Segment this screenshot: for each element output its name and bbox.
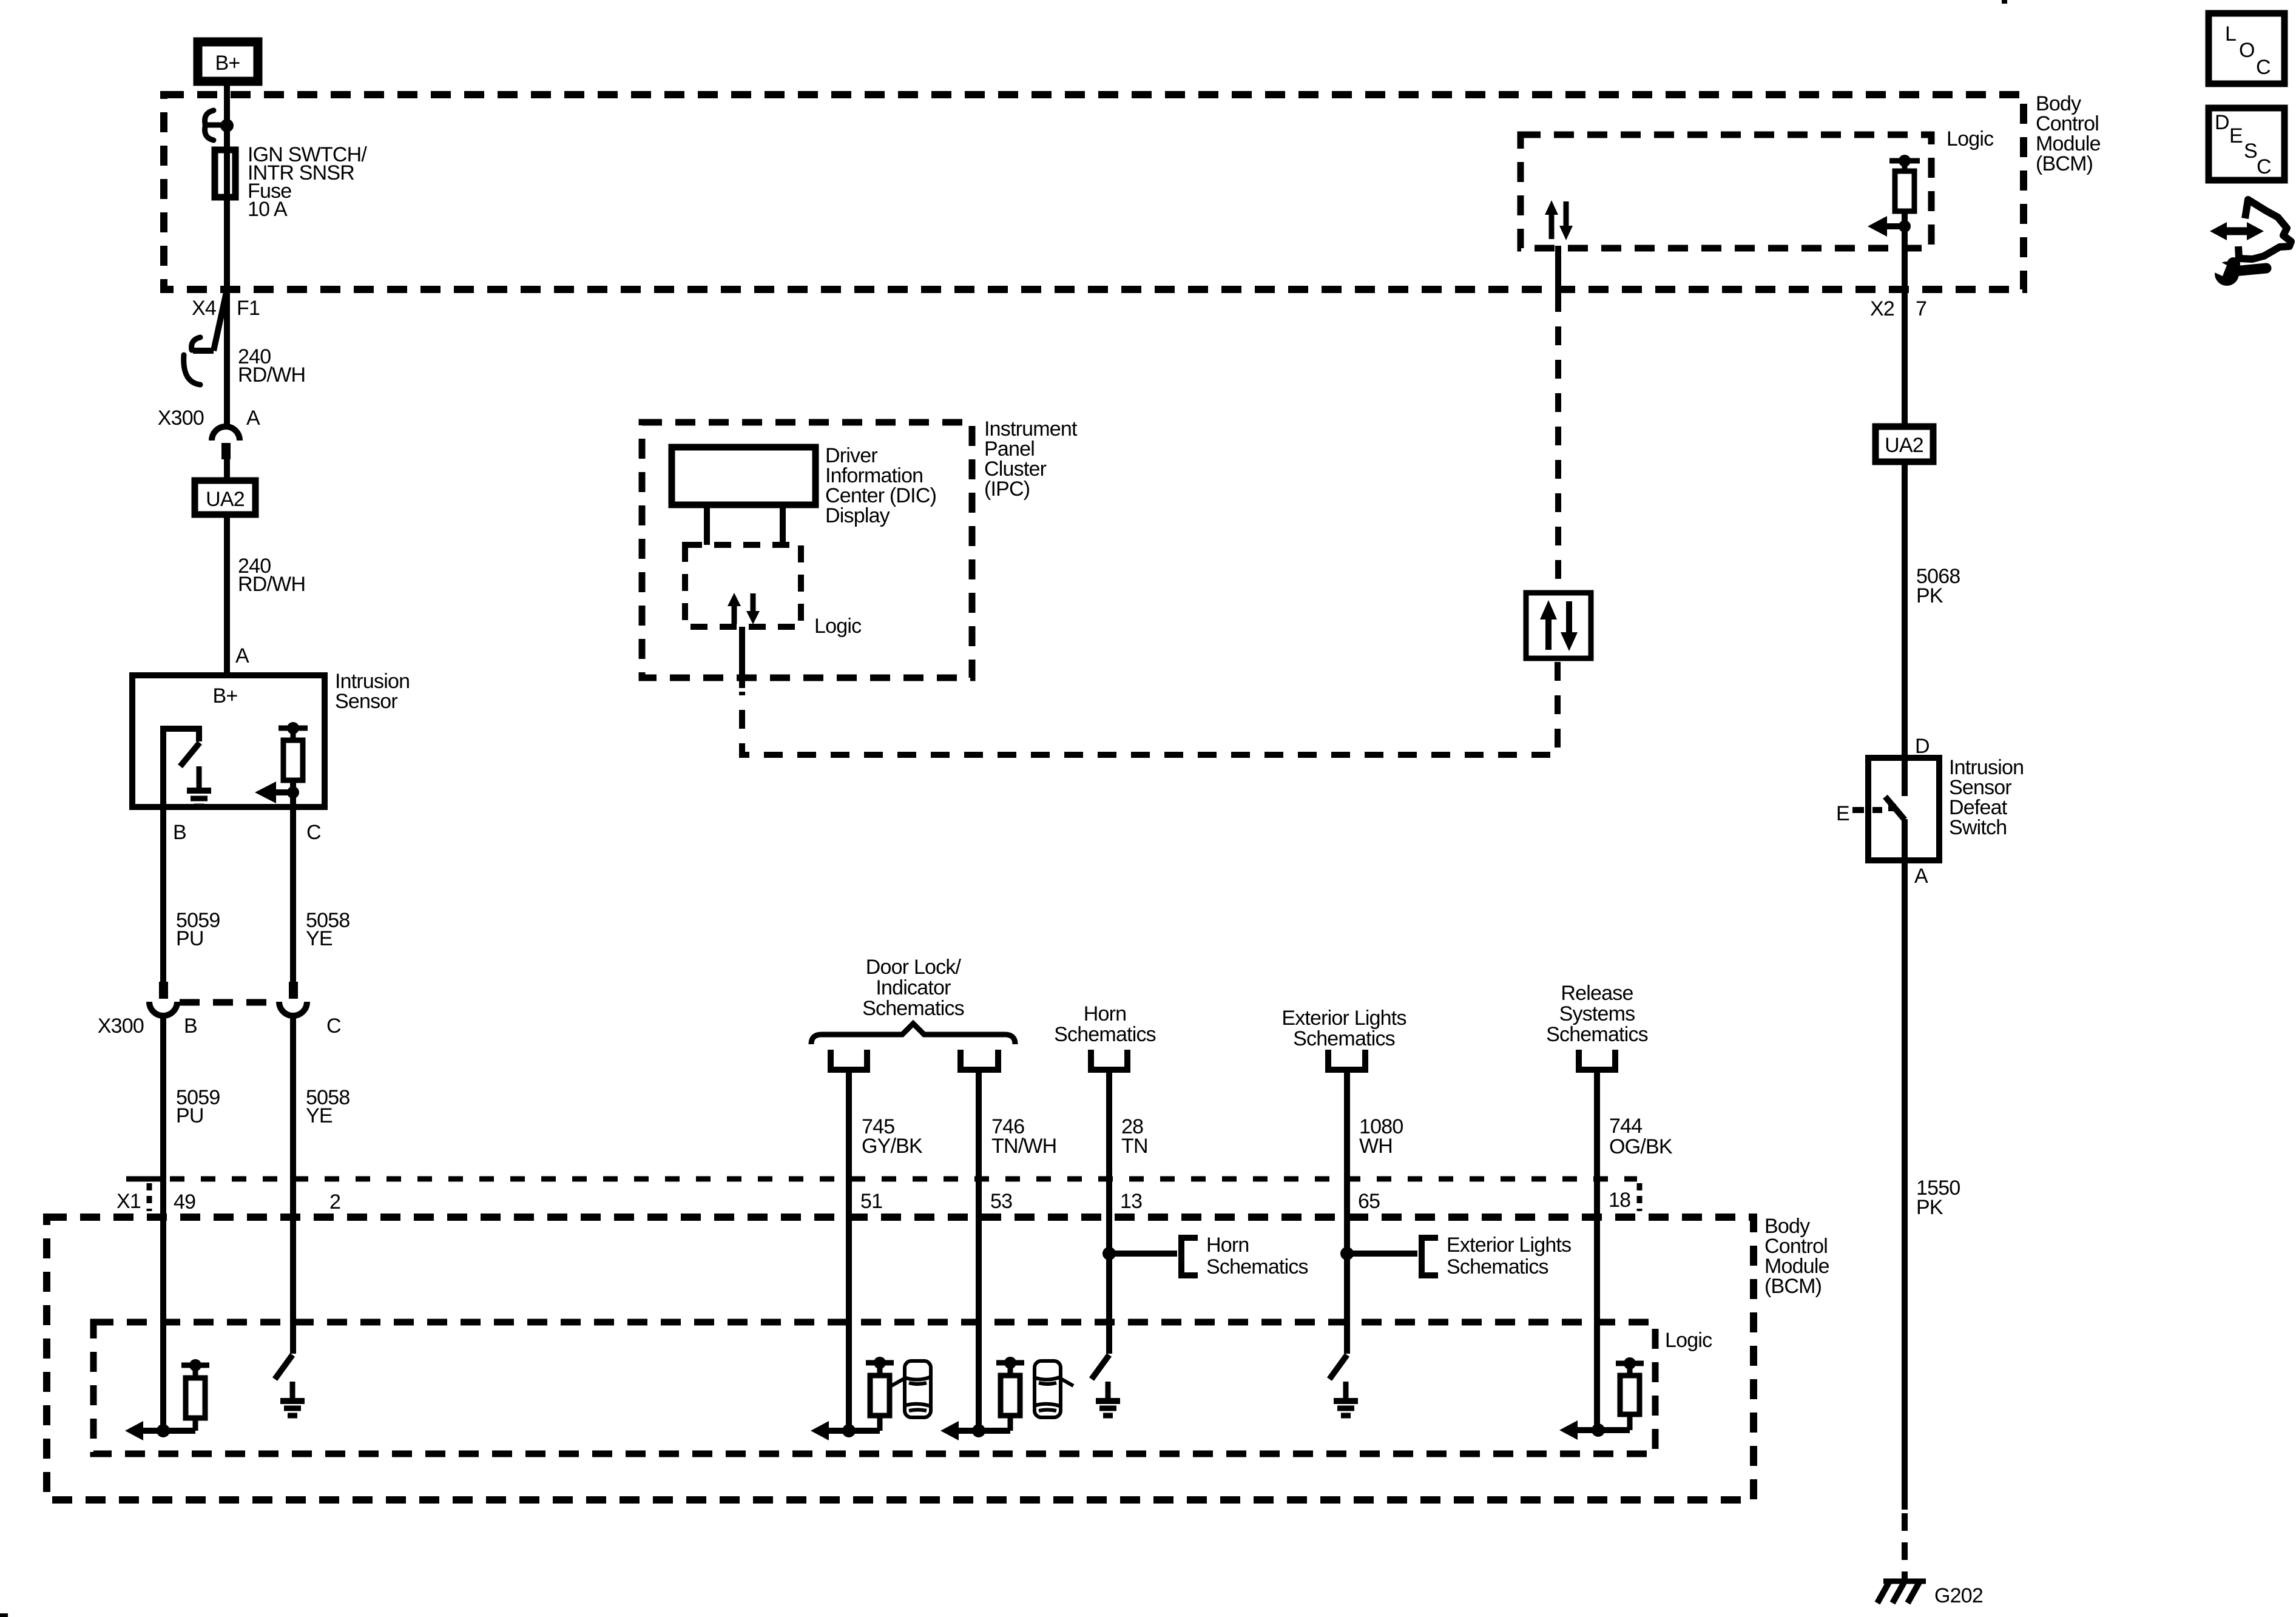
svg-text:YE: YE — [306, 927, 333, 950]
intrusion sensor signal arrow — [255, 781, 299, 803]
service/repair icon (arrow and wrench) — [2210, 200, 2291, 286]
off-page bracket Exterior Lights Schematics — [1422, 1234, 1571, 1278]
svg-text:B: B — [184, 1014, 197, 1038]
svg-text:65: 65 — [1358, 1190, 1380, 1213]
svg-text:GY/BK: GY/BK — [862, 1135, 923, 1158]
svg-text:A: A — [235, 644, 249, 667]
X1 pin numbers — [174, 1189, 1630, 1214]
pull-up resistor (BCM top right) — [1889, 155, 1920, 226]
connector X4 pin F1 (slanted pin symbol) — [184, 289, 260, 385]
Intrusion Sensor box — [132, 670, 410, 807]
wire 744 OG/BK — [1597, 1070, 1673, 1430]
svg-text:UA2: UA2 — [1885, 434, 1923, 457]
BCM resistor (pin 51) — [849, 1357, 894, 1431]
svg-text:Schematics: Schematics — [1293, 1027, 1395, 1050]
svg-text:Logic: Logic — [814, 615, 862, 638]
off-page connector (door lock 746) — [961, 1050, 998, 1070]
connector X2 pin 7 labels — [1870, 297, 1926, 320]
node: horn feed junction — [1102, 1247, 1116, 1260]
wire 5058 YE (upper) — [293, 807, 349, 982]
svg-text:Systems: Systems — [1559, 1002, 1635, 1025]
svg-text:PU: PU — [176, 1104, 204, 1127]
X300 connector dashed bridge — [180, 999, 277, 1006]
vehicle icon (pin 51) — [891, 1361, 931, 1417]
svg-text:E: E — [2229, 124, 2243, 147]
X300 row labels — [98, 1014, 341, 1038]
svg-text:D: D — [2215, 111, 2229, 134]
BCM input arrow (pin 49) — [125, 1421, 170, 1440]
svg-text:(IPC): (IPC) — [984, 478, 1030, 501]
splice/option UA2 (right) — [1876, 427, 1933, 462]
svg-text:51: 51 — [860, 1190, 882, 1213]
svg-text:Release: Release — [1561, 982, 1633, 1005]
wire 28 TN — [1109, 1070, 1148, 1354]
svg-text:F1: F1 — [237, 297, 260, 320]
BCM resistor (pin 53) — [979, 1357, 1024, 1431]
svg-text:Exterior Lights: Exterior Lights — [1281, 1007, 1406, 1030]
svg-text:WH: WH — [1359, 1135, 1393, 1158]
svg-text:Logic: Logic — [1665, 1329, 1712, 1352]
svg-text:PU: PU — [176, 927, 204, 950]
BCM pull-up resistor (pin 49) — [163, 1359, 209, 1431]
page edge speck (top) — [2002, 0, 2007, 4]
svg-text:E: E — [1836, 802, 1849, 825]
label Body Control Module (BCM) bottom — [1764, 1215, 1829, 1298]
svg-text:2: 2 — [329, 1190, 340, 1214]
svg-text:13: 13 — [1120, 1190, 1142, 1213]
pin labels B / C — [173, 821, 321, 844]
svg-text:(BCM): (BCM) — [1764, 1275, 1822, 1298]
BCM switch to ground (pin 2) — [275, 1355, 305, 1416]
power feed B+ — [198, 42, 258, 81]
wire 5059 PU (lower) — [163, 1016, 220, 1431]
BCM logic dashed box (top) — [1521, 135, 1931, 248]
wire 745 GY/BK — [849, 1070, 923, 1431]
BCM pull-up resistor (pin 18) — [1598, 1357, 1644, 1430]
svg-text:C: C — [2257, 155, 2271, 178]
svg-text:Schematics: Schematics — [1054, 1023, 1156, 1046]
BCM switch to ground (pin 65 exterior lights) — [1329, 1355, 1358, 1416]
svg-text:OG/BK: OG/BK — [1609, 1135, 1673, 1158]
wire to horn schematics bracket — [1109, 1251, 1177, 1257]
svg-text:C: C — [306, 821, 321, 844]
svg-text:B+: B+ — [213, 684, 238, 707]
svg-text:B: B — [173, 821, 186, 844]
wire 746 TN/WH — [979, 1070, 1056, 1431]
wire to exterior lights bracket — [1347, 1251, 1417, 1257]
dashed serial data line (comm box to IPC) — [742, 662, 1558, 755]
label Exterior Lights Schematics (top) — [1281, 1007, 1406, 1050]
svg-text:7: 7 — [1916, 297, 1926, 320]
wire BCM to X2 pin 7 — [1902, 226, 1908, 427]
svg-text:B+: B+ — [215, 52, 240, 75]
svg-text:RD/WH: RD/WH — [238, 573, 305, 596]
off-page bracket Horn Schematics — [1181, 1234, 1308, 1278]
svg-text:YE: YE — [306, 1104, 333, 1127]
wire 1550 PK — [1905, 860, 1960, 1510]
intrusion sensor internal resistor — [279, 722, 308, 807]
svg-text:A: A — [246, 407, 260, 430]
BCM input arrow (pin 18) — [1559, 1420, 1605, 1440]
svg-text:(BCM): (BCM) — [2036, 152, 2093, 175]
svg-text:Indicator: Indicator — [876, 976, 951, 999]
svg-text:O: O — [2239, 39, 2255, 62]
svg-text:C: C — [2256, 56, 2271, 79]
svg-text:18: 18 — [1609, 1189, 1630, 1212]
intrusion sensor internal switch — [163, 729, 200, 807]
splice/option UA2 (left) — [195, 481, 255, 515]
svg-text:53: 53 — [990, 1190, 1012, 1213]
DESC reference icon — [2209, 108, 2284, 180]
svg-text:G202: G202 — [1934, 1584, 1983, 1607]
serial data arrows (top logic) — [1545, 200, 1573, 240]
off-page connector (release systems) — [1579, 1050, 1615, 1070]
off-page connector (door lock 745) — [831, 1050, 867, 1070]
fuse F1: IGN SWTCH / INTR SNSR Fuse 10 A — [215, 143, 367, 221]
svg-text:Exterior Lights: Exterior Lights — [1447, 1234, 1571, 1257]
svg-text:10 A: 10 A — [248, 198, 288, 221]
svg-text:Horn: Horn — [1084, 1002, 1127, 1025]
dashed serial data line (BCM to comm box) — [1555, 293, 1561, 589]
svg-text:Schematics: Schematics — [1206, 1255, 1308, 1278]
Body Control Module (BCM) top dashed box — [164, 95, 2024, 289]
node: exterior lights feed junction — [1340, 1247, 1354, 1260]
wire 5059 PU (upper) — [163, 807, 220, 982]
svg-text:X1: X1 — [116, 1190, 141, 1213]
svg-text:Schematics: Schematics — [1546, 1023, 1648, 1046]
svg-text:Schematics: Schematics — [1447, 1255, 1548, 1278]
page edge speck (bottom left) — [0, 1613, 8, 1617]
intrusion sensor internal ground — [187, 766, 211, 806]
vehicle icon (pin 53) — [1035, 1361, 1073, 1417]
defeat switch pin E with dashes — [1836, 802, 1882, 825]
wire 5068 PK — [1905, 462, 1960, 758]
connector X300 pin C — [279, 982, 307, 1016]
BCM output arrow (pin 51) — [811, 1421, 856, 1440]
label Release Systems Schematics — [1546, 982, 1648, 1046]
dashed wire to ground G202 — [1902, 1513, 1908, 1580]
Instrument Panel Cluster (IPC) dashed box — [642, 417, 1078, 678]
svg-text:Sensor: Sensor — [335, 690, 397, 713]
svg-text:Switch: Switch — [1949, 816, 2007, 839]
label Horn Schematics (top) — [1054, 1002, 1156, 1046]
wire 240 RD/WH (upper) — [227, 289, 305, 427]
Body Control Module (BCM) bottom dashed box — [47, 1217, 1754, 1500]
BCM logic dashed box (bottom) — [93, 1322, 1655, 1454]
connector X1 fine dotted line — [126, 1179, 1639, 1211]
svg-text:X300: X300 — [158, 407, 204, 430]
label Body Control Module (BCM) top — [2036, 92, 2101, 175]
Driver Information Center (DIC) Display — [672, 444, 936, 545]
solid comm stub below IPC logic — [739, 627, 745, 688]
svg-text:L: L — [2225, 22, 2236, 46]
svg-text:Door Lock/: Door Lock/ — [866, 956, 962, 979]
off-page connector (exterior lights) — [1328, 1050, 1365, 1070]
svg-text:Logic: Logic — [1947, 127, 1994, 150]
svg-text:S: S — [2244, 140, 2257, 163]
chassis ground G202 — [1877, 1581, 1983, 1607]
connector X300 pin A — [158, 407, 260, 481]
svg-text:RD/WH: RD/WH — [238, 363, 305, 387]
svg-text:PK: PK — [1916, 584, 1943, 607]
BCM output arrow (to defeat switch) — [1868, 216, 1911, 237]
label Door Lock / Indicator Schematics — [862, 956, 964, 1020]
defeat switch blade — [1885, 758, 1905, 860]
svg-text:X2: X2 — [1870, 297, 1894, 320]
IPC logic dashed box — [685, 545, 862, 638]
LOC reference icon — [2209, 13, 2284, 84]
svg-text:C: C — [326, 1014, 341, 1038]
svg-text:PK: PK — [1916, 1196, 1943, 1219]
connector X300 pin B — [149, 982, 177, 1016]
wire B+ to fuse F1 — [224, 81, 230, 289]
svg-text:744: 744 — [1609, 1115, 1642, 1138]
wire 1080 WH — [1347, 1070, 1403, 1354]
Intrusion Sensor Defeat Switch box — [1868, 756, 2024, 860]
svg-text:TN: TN — [1121, 1135, 1148, 1158]
comm translator box with arrows — [1526, 593, 1591, 658]
comm line solid stub below top logic — [1555, 246, 1561, 289]
serial data arrows (IPC logic) — [728, 593, 760, 624]
fuse terminal clip (top) — [205, 110, 226, 140]
svg-text:A: A — [1914, 865, 1928, 888]
brace over door lock wires — [811, 1024, 1015, 1044]
svg-text:Display: Display — [825, 504, 890, 527]
svg-text:49: 49 — [174, 1190, 195, 1214]
junction node (B+ / fuse) — [220, 119, 234, 132]
svg-text:UA2: UA2 — [206, 488, 245, 511]
BCM switch to ground (pin 13 horn) — [1092, 1355, 1120, 1416]
svg-text:X300: X300 — [98, 1014, 144, 1038]
svg-text:D: D — [1915, 735, 1930, 758]
wire 5058 YE (lower) — [293, 1016, 349, 1354]
BCM output arrow (pin 53) — [940, 1421, 985, 1440]
wire 240 RD/WH (lower) — [227, 515, 305, 675]
svg-text:TN/WH: TN/WH — [991, 1135, 1056, 1158]
svg-text:X4: X4 — [192, 297, 216, 320]
svg-text:Schematics: Schematics — [862, 997, 964, 1020]
off-page connector (horn) — [1091, 1050, 1127, 1070]
svg-text:Horn: Horn — [1206, 1234, 1249, 1257]
